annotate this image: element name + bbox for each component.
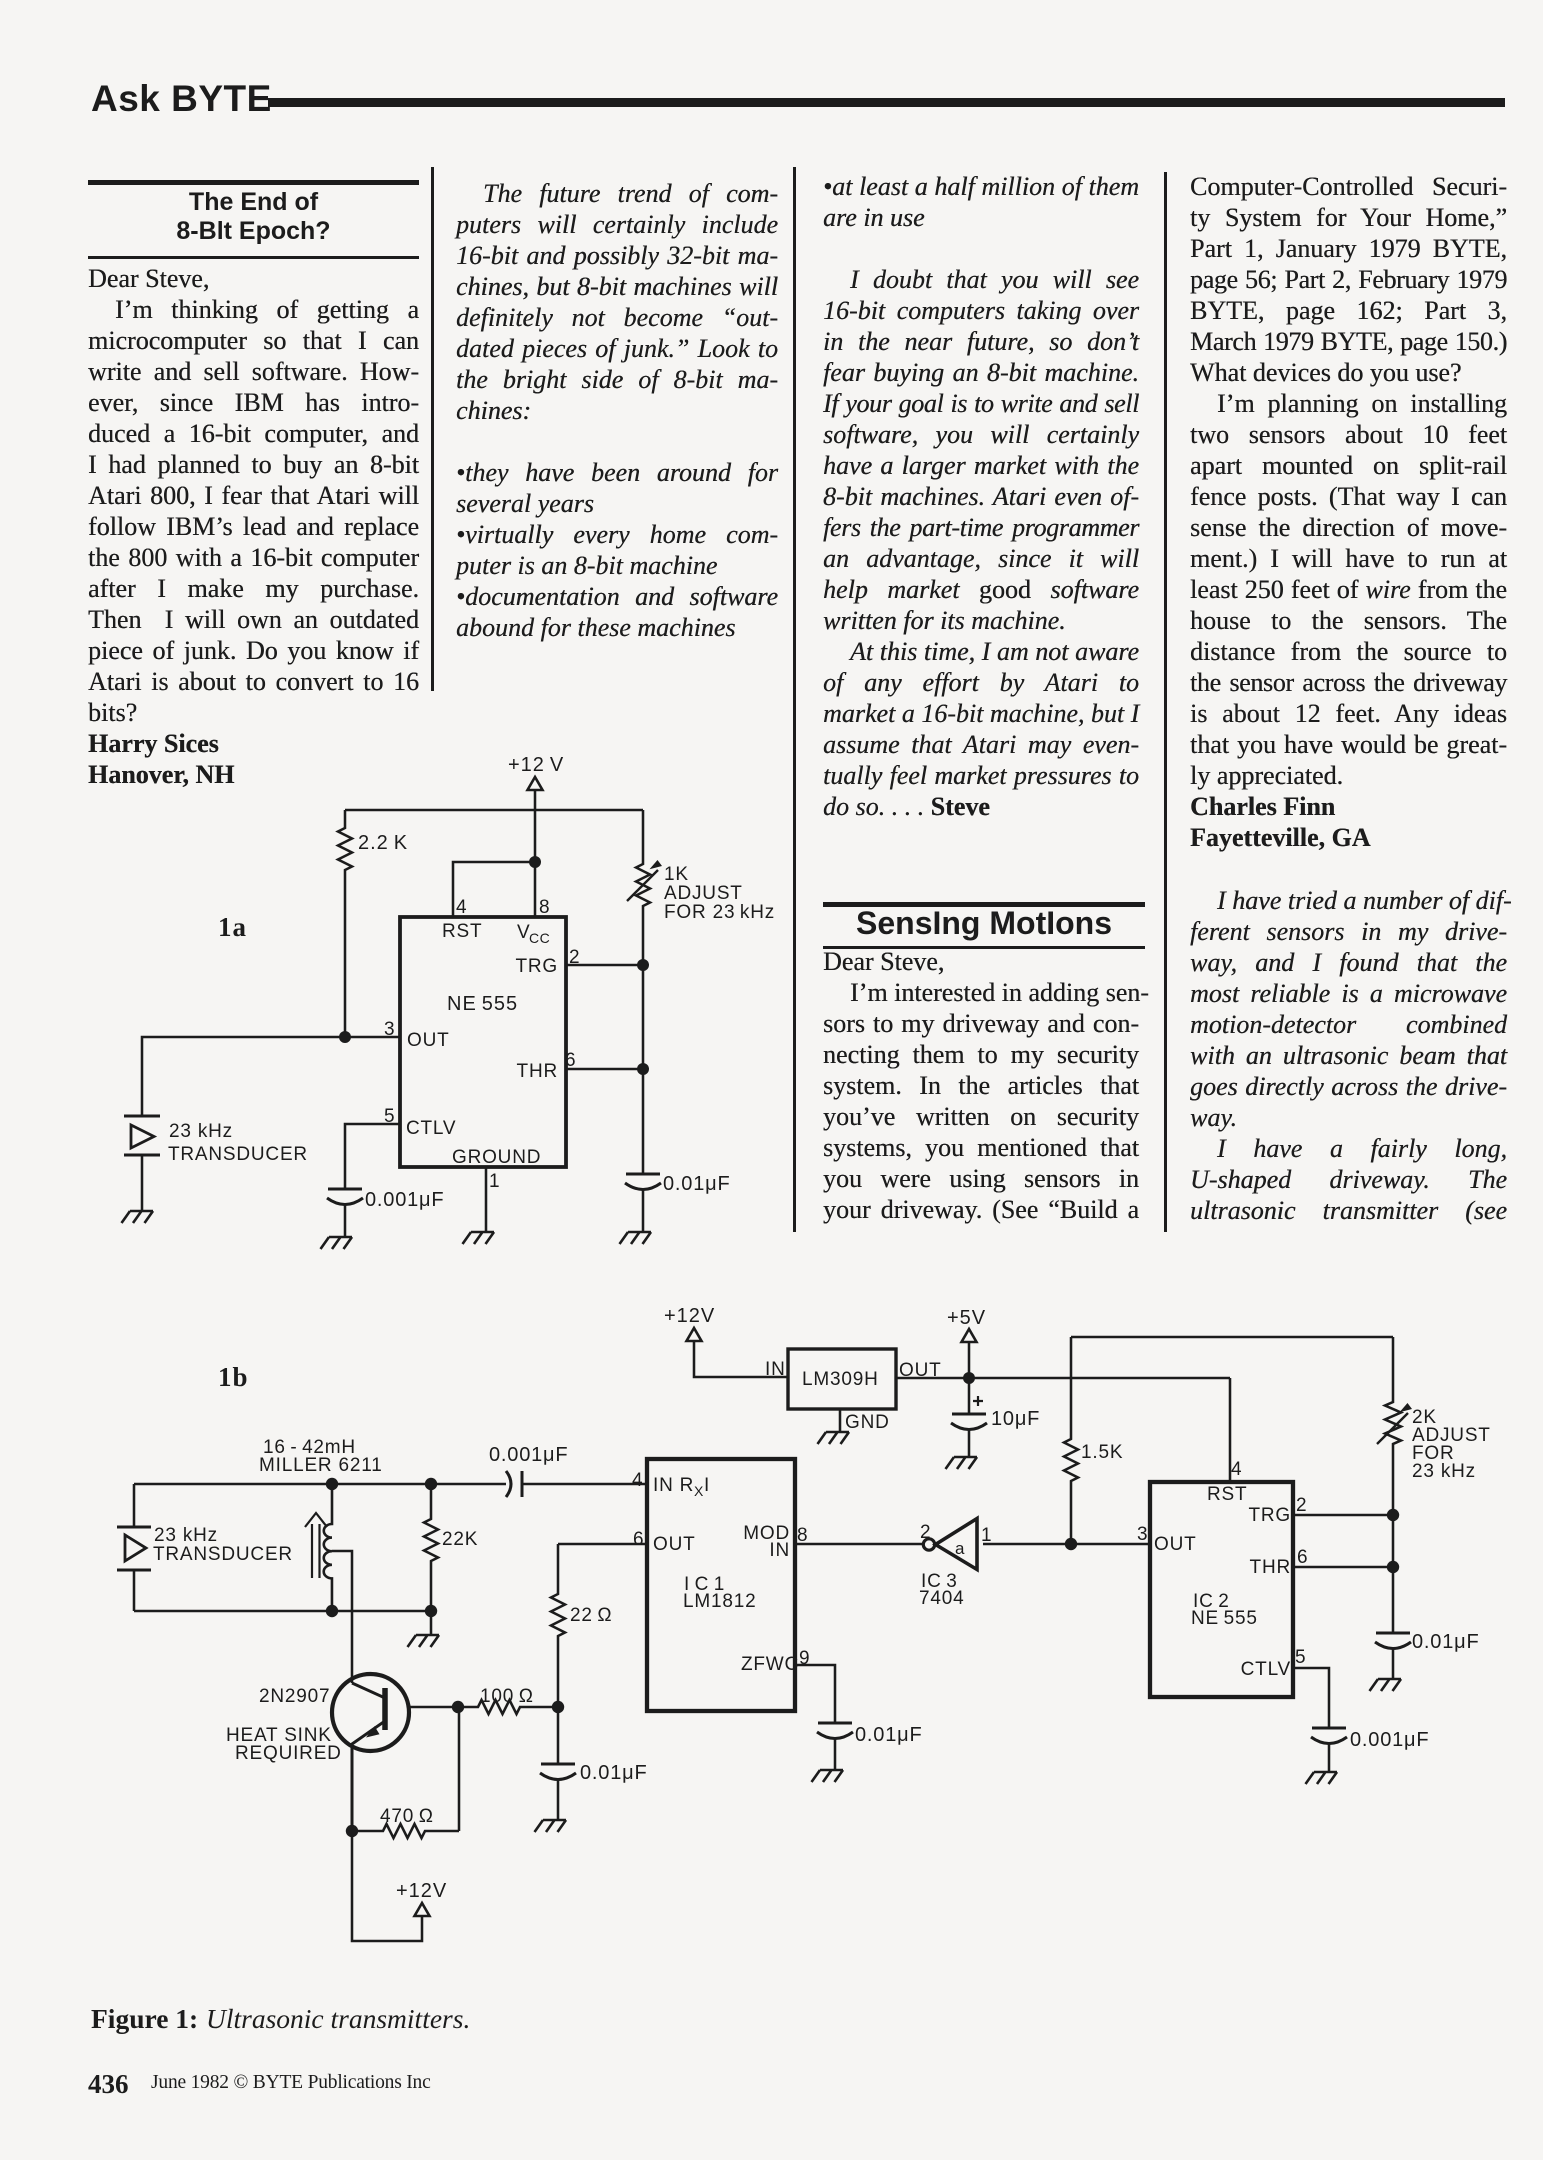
heading Sensing Motions bbox=[823, 902, 1145, 907]
svg-text:6: 6 bbox=[1297, 1547, 1308, 1568]
column divider 3 bbox=[1164, 172, 1167, 1232]
capacitor 0.01uF (pot) bbox=[1376, 1632, 1410, 1635]
junction dots inductor bbox=[326, 1478, 338, 1490]
resistor 470 ohm bbox=[352, 1824, 459, 1838]
wire 470 to base node bbox=[458, 1707, 461, 1831]
resistor 22K bbox=[424, 1484, 438, 1611]
ground (CTLV cap) bbox=[1306, 1772, 1338, 1784]
wire top rail right (pot feed) bbox=[1071, 1336, 1393, 1339]
wire +5V rail into IC2 RST pin4 bbox=[1229, 1378, 1232, 1482]
svg-text:TRG: TRG bbox=[1248, 1505, 1291, 1526]
caption Figure 1 bbox=[91, 2003, 198, 2035]
wire CTLV pin5 bbox=[345, 1124, 400, 1189]
wire OUT pin6 LM1812 bbox=[558, 1543, 647, 1546]
capacitor 0.001uF (CTLV) bbox=[1312, 1727, 1346, 1730]
svg-text:2N2907: 2N2907 bbox=[259, 1686, 330, 1707]
svg-text:10μF: 10μF bbox=[991, 1408, 1040, 1430]
junction emitter/470 node bbox=[346, 1825, 358, 1837]
IC2 NE555 box bbox=[1150, 1482, 1293, 1697]
capacitor 0.001uF series (1b) bbox=[506, 1471, 511, 1497]
svg-text:THR: THR bbox=[517, 1061, 558, 1082]
wire bottom 1b bbox=[134, 1610, 431, 1613]
footer bbox=[88, 2069, 129, 2100]
svg-text:22K: 22K bbox=[442, 1529, 478, 1550]
svg-text:23 kHz: 23 kHz bbox=[1412, 1461, 1476, 1482]
svg-text:TRANSDUCER: TRANSDUCER bbox=[168, 1144, 308, 1165]
svg-text:5: 5 bbox=[1295, 1647, 1306, 1668]
svg-text:REQUIRED: REQUIRED bbox=[235, 1743, 342, 1764]
ground (10uF) bbox=[946, 1457, 978, 1469]
svg-text:0.01μF: 0.01μF bbox=[580, 1762, 647, 1784]
svg-text:X: X bbox=[694, 1483, 704, 1499]
svg-text:2: 2 bbox=[920, 1522, 931, 1543]
wire OUT pin3 to transducer bbox=[142, 1037, 400, 1116]
wire GROUND pin1 bbox=[485, 1167, 488, 1232]
capacitor 0.01uF (1a) bbox=[626, 1173, 660, 1176]
junction 7404 output node bbox=[1065, 1538, 1077, 1550]
wire 22K to ground bbox=[430, 1611, 433, 1635]
svg-text:22 Ω: 22 Ω bbox=[570, 1605, 612, 1626]
junction +5V node bbox=[963, 1372, 975, 1384]
heading The End of 8-Bit Epoch? bbox=[88, 180, 419, 185]
svg-text:1K: 1K bbox=[664, 864, 689, 885]
svg-text:RST: RST bbox=[1207, 1484, 1247, 1505]
svg-text:CC: CC bbox=[529, 930, 550, 946]
svg-text:8: 8 bbox=[539, 897, 550, 918]
resistor 2.2K bbox=[338, 810, 352, 1037]
svg-text:IN: IN bbox=[769, 1540, 790, 1561]
svg-text:+12 V: +12 V bbox=[508, 754, 564, 776]
svg-text:OUT: OUT bbox=[407, 1030, 450, 1051]
svg-text:3: 3 bbox=[1137, 1524, 1148, 1545]
wire inductor tap to Q1 collector bbox=[332, 1551, 352, 1683]
svg-text:FOR 23 kHz: FOR 23 kHz bbox=[664, 902, 775, 923]
svg-text:7404: 7404 bbox=[919, 1588, 964, 1609]
svg-text:OUT: OUT bbox=[1154, 1534, 1197, 1555]
svg-text:+5V: +5V bbox=[947, 1307, 986, 1329]
column divider 1 bbox=[431, 167, 434, 691]
capacitor 0.01uF (emitter RC) bbox=[557, 1707, 560, 1764]
svg-text:ZFWC: ZFWC bbox=[741, 1654, 799, 1675]
IC1 LM1812 box bbox=[647, 1459, 795, 1711]
wire LM309H OUT to +5V rail bbox=[896, 1377, 1230, 1380]
svg-text:0.001μF: 0.001μF bbox=[489, 1444, 568, 1466]
svg-text:4: 4 bbox=[456, 897, 467, 918]
ground (0.001uF 1a) bbox=[321, 1237, 353, 1249]
svg-text:0.01μF: 0.01μF bbox=[1412, 1631, 1479, 1653]
svg-text:2.2 K: 2.2 K bbox=[358, 832, 408, 854]
svg-text:TRG: TRG bbox=[515, 956, 558, 977]
svg-text:CTLV: CTLV bbox=[406, 1118, 456, 1139]
resistor 100 ohm bbox=[458, 1700, 558, 1714]
wire THR pin6 bbox=[566, 1068, 643, 1071]
resistor 1.5K bbox=[1064, 1337, 1078, 1544]
svg-text:THR: THR bbox=[1250, 1557, 1291, 1578]
wire THR pin6 (IC2) bbox=[1293, 1566, 1393, 1569]
svg-text:ADJUST: ADJUST bbox=[664, 883, 743, 904]
header Ask BYTE bbox=[91, 78, 272, 120]
transducer 23 kHz (1a) bbox=[124, 1116, 308, 1165]
column 3 lower (roman) bbox=[823, 946, 1139, 1225]
resistor 22 ohm bbox=[551, 1544, 565, 1707]
svg-text:+12V: +12V bbox=[664, 1305, 715, 1327]
column 3 upper (italic) bbox=[823, 171, 1139, 822]
potentiometer 1K bbox=[636, 810, 650, 1173]
wire +12V to LM309H IN bbox=[694, 1341, 788, 1377]
wire cap to LM1812 pin4 bbox=[522, 1483, 647, 1486]
junction 100/22/cap node bbox=[552, 1701, 564, 1713]
svg-text:LM309H: LM309H bbox=[802, 1369, 879, 1390]
svg-text:1b: 1b bbox=[218, 1362, 249, 1392]
ground (transducer 1a) bbox=[122, 1211, 154, 1223]
svg-text:CTLV: CTLV bbox=[1241, 1659, 1291, 1680]
wire TRG pin2 bbox=[566, 964, 643, 967]
ground (pot cap) bbox=[1370, 1679, 1402, 1691]
capacitor 10uF bbox=[968, 1378, 971, 1414]
svg-text:23 kHz: 23 kHz bbox=[154, 1525, 218, 1546]
wire TRG pin2 (IC2) bbox=[1293, 1514, 1393, 1517]
svg-text:23 kHz: 23 kHz bbox=[169, 1121, 233, 1142]
ground (ZFWC cap) bbox=[812, 1770, 844, 1782]
column 1 bbox=[88, 263, 419, 790]
svg-text:NE 555: NE 555 bbox=[447, 993, 518, 1015]
wire top rail 1a bbox=[345, 809, 643, 812]
wire reset stub pin4 bbox=[453, 862, 535, 917]
svg-text:4: 4 bbox=[632, 1470, 643, 1491]
svg-text:TRANSDUCER: TRANSDUCER bbox=[153, 1544, 293, 1565]
svg-text:IN R: IN R bbox=[653, 1475, 694, 1496]
ground (22K) bbox=[408, 1635, 440, 1647]
svg-text:1: 1 bbox=[489, 1171, 500, 1192]
svg-text:+12V: +12V bbox=[396, 1880, 447, 1902]
supply +12V (1a) bbox=[508, 754, 564, 810]
wire cap to ground bbox=[642, 1190, 645, 1232]
column divider 2 bbox=[793, 167, 796, 1232]
capacitor 0.01uF (ZFWC) bbox=[818, 1722, 852, 1725]
svg-text:IN: IN bbox=[765, 1359, 786, 1380]
header rule bbox=[268, 98, 1505, 107]
svg-text:OUT: OUT bbox=[653, 1534, 696, 1555]
svg-text:a: a bbox=[955, 1539, 965, 1558]
transducer 23 kHz (1b) bbox=[117, 1484, 293, 1611]
svg-text:2: 2 bbox=[1296, 1495, 1307, 1516]
junction THR node bbox=[637, 1063, 649, 1075]
wire ZFWC pin9 bbox=[795, 1665, 835, 1723]
svg-text:RST: RST bbox=[442, 921, 482, 942]
junction base/470 node bbox=[452, 1701, 464, 1713]
transistor Q1 2N2907 bbox=[226, 1674, 458, 1831]
svg-text:NE 555: NE 555 bbox=[1191, 1608, 1258, 1629]
svg-text:MILLER 6211: MILLER 6211 bbox=[259, 1455, 383, 1476]
svg-text:0.01μF: 0.01μF bbox=[663, 1173, 730, 1195]
inductor L 16-42mH bbox=[305, 1484, 332, 1611]
wire inverter out to junction bbox=[983, 1543, 1150, 1546]
svg-text:0.01μF: 0.01μF bbox=[855, 1724, 922, 1746]
svg-text:GND: GND bbox=[845, 1412, 890, 1433]
column 4 lower (italic) bbox=[1190, 885, 1507, 1226]
svg-text:100 Ω: 100 Ω bbox=[480, 1686, 534, 1707]
svg-text:0.001μF: 0.001μF bbox=[1350, 1729, 1429, 1751]
capacitor 0.001uF (1a) bbox=[328, 1188, 362, 1191]
svg-text:1.5K: 1.5K bbox=[1081, 1442, 1123, 1463]
svg-text:6: 6 bbox=[633, 1529, 644, 1550]
wire transducer to ground bbox=[141, 1155, 144, 1211]
ground (0.01uF 1a) bbox=[620, 1232, 652, 1244]
ground (0.01uF left) bbox=[535, 1820, 567, 1832]
wire MOD IN to inverter bubble bbox=[795, 1543, 923, 1546]
column 2 bbox=[456, 178, 778, 643]
wire top 1b left bbox=[134, 1483, 506, 1486]
svg-text:1a: 1a bbox=[218, 912, 247, 942]
svg-text:4: 4 bbox=[1231, 1459, 1242, 1480]
wire cap to ground bbox=[344, 1205, 347, 1237]
junction OUT node bbox=[339, 1031, 351, 1043]
IC U1 NE555 (1a) box bbox=[400, 917, 566, 1167]
junction Vcc node bbox=[529, 856, 541, 868]
svg-text:470 Ω: 470 Ω bbox=[380, 1806, 434, 1827]
regulator LM309H box bbox=[788, 1349, 896, 1409]
wire emitter to +12V bottom bbox=[352, 1831, 422, 1941]
inverter IC3 7404 bbox=[919, 1519, 992, 1610]
svg-text:0.001μF: 0.001μF bbox=[365, 1189, 444, 1211]
wire CTLV pin5 (IC2) bbox=[1293, 1668, 1329, 1728]
wire +12V down to Vcc node bbox=[534, 810, 537, 917]
potentiometer 2K bbox=[1385, 1337, 1401, 1632]
svg-text:LM1812: LM1812 bbox=[683, 1591, 756, 1612]
ground (pin1 1a) bbox=[463, 1232, 495, 1244]
column 4 upper (roman) bbox=[1190, 171, 1507, 853]
junction TRG node bbox=[637, 959, 649, 971]
svg-text:I: I bbox=[704, 1475, 710, 1496]
svg-text:GROUND: GROUND bbox=[452, 1147, 541, 1168]
pin name GND + ground bbox=[839, 1409, 842, 1432]
